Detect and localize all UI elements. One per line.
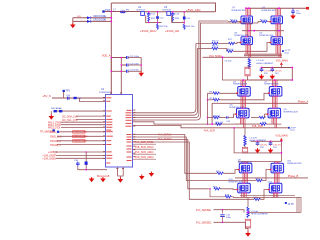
resistor R15 on W1: [216, 122, 224, 125]
ground mcu 2: [100, 177, 106, 182]
bundle Q8 bottom: [272, 118, 277, 128]
resistor R11 gate Q9: [216, 169, 239, 175]
label Q3: [234, 33, 249, 38]
svg-text:R4 2.2: R4 2.2: [212, 46, 219, 48]
label Q9: [238, 159, 253, 163]
ferrite bead FB1: [74, 97, 82, 100]
svg-text:100n: 100n: [296, 13, 302, 15]
wire bus2: [133, 49, 198, 116]
wire source bus c3: [233, 196, 302, 198]
svg-text:NCP163: NCP163: [137, 10, 146, 12]
ground diodes: [70, 18, 76, 28]
resistor R24: [172, 16, 180, 22]
ground mcu 5: [118, 178, 124, 183]
transistor Q5: [237, 86, 250, 97]
label Q11: [287, 160, 302, 165]
transistor Q3: [240, 36, 252, 45]
wire mid2 to cluster2: [133, 125, 289, 127]
capacitor C13: [171, 12, 180, 16]
MCU pin names right: [126, 110, 132, 161]
wire top horizontal: [111, 3, 215, 12]
capacitor C23: [127, 70, 142, 73]
svg-text:PxC_SCR_ADC1: PxC_SCR_ADC1: [135, 151, 154, 154]
resistor R13 gate Q10: [209, 187, 238, 191]
svg-text:25V: 25V: [260, 147, 264, 149]
wire vdd second pin: [79, 98, 105, 102]
svg-text:100n: 100n: [226, 217, 232, 219]
wire stub left 2: [73, 20, 112, 22]
drain stubs Q11: [275, 162, 280, 164]
wire phase A: [211, 103, 308, 125]
wire U2 out: [145, 11, 167, 13]
svg-text:+3V3A_MCU: +3V3A_MCU: [140, 29, 156, 33]
wire +1V8_SNSP: [42, 155, 105, 158]
resistor R8 gate Q6: [208, 116, 227, 119]
wire stub left 1: [73, 17, 112, 19]
MCU pin names left: [106, 97, 113, 163]
resistor R2 gate Q2: [225, 19, 271, 23]
wire rc bottom: [196, 222, 248, 229]
MCU right net labels: [133, 141, 157, 144]
label Q5: [233, 81, 248, 85]
wire bus1: [133, 44, 196, 113]
junction rail corner: [245, 7, 247, 9]
junction dots trunk: [110, 11, 112, 23]
resistor R4 gate Q4: [197, 42, 271, 53]
resistor R14 gate Q12: [253, 189, 269, 201]
wire SWDIO: [50, 131, 106, 134]
wire vss riser c2: [281, 140, 283, 161]
svg-text:R22 10k: R22 10k: [160, 26, 169, 28]
label Q12: [268, 182, 273, 184]
MCU U1: [99, 88, 133, 167]
svg-text:HIGH CURRENT: HIGH CURRENT: [251, 214, 268, 216]
resistor R9 gate Q8: [251, 113, 268, 118]
inductor L3: [247, 198, 269, 218]
ground C9: [255, 148, 261, 153]
drain bundle Q2: [276, 8, 281, 16]
wire TRACE1: [50, 144, 106, 147]
junction dots caps: [111, 57, 143, 72]
testpoint J1: [282, 50, 291, 54]
capacitor C9: [256, 141, 268, 149]
svg-text:Mxxxxxx8: Mxxxxxx8: [97, 174, 110, 178]
wire out node bottom: [247, 79, 293, 81]
svg-text:R3 2.2: R3 2.2: [212, 41, 219, 43]
svg-text:HIGH CURRENT: HIGH CURRENT: [256, 63, 273, 65]
transistor Q7: [269, 86, 282, 97]
capacitor C11: [147, 12, 156, 16]
wire bus3: [133, 21, 229, 118]
wire U2 bottom loop: [146, 12, 162, 23]
drain stubs Q5: [241, 80, 246, 87]
wire return bottom: [248, 211, 301, 213]
svg-text:C23 100n: C23 100n: [130, 70, 140, 72]
sense resistor RS3: [245, 219, 250, 228]
svg-text:+3V3A_GD: +3V3A_GD: [165, 29, 179, 33]
inductor L7: [113, 8, 129, 12]
svg-text:CR2 DIODE: CR2 DIODE: [93, 15, 106, 18]
inductor L2: [244, 128, 267, 146]
ground mcu 1: [89, 177, 95, 182]
net tag VBAT: [306, 7, 309, 10]
capacitor C12: [156, 16, 164, 19]
wire mid1 to cluster2: [133, 122, 261, 125]
wire main vertical left trunk: [110, 3, 112, 95]
source bundle Q1-Q3: [246, 24, 251, 37]
label Q7: [264, 81, 279, 85]
wire +5V_ADJ net: [171, 11, 216, 13]
svg-text:PA15_JTDI: PA15_JTDI: [48, 127, 60, 130]
capacitor C30: [74, 160, 80, 166]
bundle Q7-Q8: [273, 96, 278, 108]
capacitor C6: [225, 61, 233, 63]
resistor R13b: [210, 189, 234, 198]
bundle Q4 bottom: [276, 45, 281, 58]
svg-text:PxD_SCR_ADC2: PxD_SCR_ADC2: [135, 156, 154, 159]
bundle Q12 bottom: [273, 193, 278, 198]
capacitor C15: [220, 210, 231, 223]
ground L3: [245, 228, 251, 237]
capacitor C21: [127, 56, 142, 59]
wire bus5: [133, 135, 218, 174]
capacitor C31: [66, 95, 71, 100]
wire mcu bottom pins: [118, 167, 124, 178]
wire out node c2: [242, 152, 281, 154]
transistor Q4: [270, 36, 282, 45]
label VSS_MAIN 1: [276, 60, 288, 69]
ground mcu 4: [149, 172, 155, 177]
wire phase row1: [242, 30, 284, 32]
svg-text:NVMFS5C628: NVMFS5C628: [284, 111, 299, 113]
svg-text:I2C_SCL_1V8: I2C_SCL_1V8: [62, 119, 78, 122]
wire TRACE0: [50, 140, 106, 143]
inductor L1: [248, 57, 274, 69]
bundle Q3 bottom: [246, 45, 251, 58]
label Q6: [230, 105, 245, 110]
label PxA_SCR2A: [158, 138, 172, 141]
bundle Q6 bottom: [241, 118, 246, 128]
wire GPIO1: [48, 124, 106, 127]
wire source row c2: [234, 123, 260, 125]
transistor Q8: [267, 108, 280, 119]
label Phase_A: [298, 100, 309, 104]
wire left drop: [222, 56, 247, 80]
svg-text:+1V8_SNSN: +1V8_SNSN: [42, 158, 56, 161]
junction dots U3: [172, 11, 185, 23]
svg-text:SWDIO_MCU: SWDIO_MCU: [74, 132, 88, 134]
ground C8: [270, 74, 276, 79]
label Ph_SCR: [252, 125, 263, 128]
wire +1V8_S: [48, 150, 106, 154]
wire SWCLK: [50, 135, 106, 138]
svg-text:25V: 25V: [264, 73, 268, 75]
regulator U3: [163, 6, 172, 15]
ground bead: [49, 111, 55, 120]
transistor Q9: [239, 163, 252, 174]
svg-text:PxA_SCR_DAC1: PxA_SCR_DAC1: [135, 141, 154, 144]
wire vss node: [261, 67, 294, 69]
bundle Q5-Q6: [241, 96, 246, 108]
diode D2: [87, 19, 106, 23]
label Q8: [284, 109, 299, 113]
transistor Q12: [269, 183, 282, 194]
wire +5V_S row: [52, 97, 106, 99]
ferrite bead FB2: [85, 162, 88, 165]
svg-text:NVMFS5C628: NVMFS5C628: [262, 10, 277, 12]
wire bus6: [133, 137, 257, 181]
svg-text:+5V0_ADJ: +5V0_ADJ: [186, 8, 201, 12]
resistor R23: [183, 24, 195, 29]
wire input left: [103, 11, 141, 13]
source bus cluster1: [203, 54, 283, 57]
junction dots U2: [148, 11, 158, 23]
transistor Q1: [240, 15, 252, 24]
wire cluster2 gate riser: [207, 93, 209, 124]
wire left drop c2: [233, 127, 242, 153]
label Q4: [259, 33, 274, 38]
testpoint J3: [288, 127, 297, 132]
svg-text:R23 10k: R23 10k: [186, 26, 195, 28]
svg-text:PxC_SENSE2: PxC_SENSE2: [196, 222, 212, 225]
wire U3 bottom loop: [172, 12, 185, 25]
label +3V3_MCU: [140, 29, 156, 33]
resistor R7 gate Q7: [208, 93, 270, 102]
capacitor C10: [269, 141, 282, 149]
junction drain c2: [242, 79, 275, 81]
svg-text:VSS_MAIN: VSS_MAIN: [276, 135, 288, 138]
svg-text:TR4: TR4: [105, 8, 110, 12]
wire right risers c3: [297, 198, 301, 213]
svg-text:C22 100n: C22 100n: [130, 63, 140, 65]
wire GPIO0: [48, 121, 106, 124]
wire vss node c2: [251, 140, 282, 142]
transistor Q6: [236, 108, 249, 119]
testpoint TP1: [63, 90, 71, 98]
svg-text:J4 TP: J4 TP: [288, 203, 295, 206]
label Phase_B: [288, 174, 299, 178]
wire mcu bottom left: [78, 152, 107, 171]
label Q10: [229, 179, 244, 184]
label +5V_S: [42, 94, 51, 98]
capacitor C14: [183, 17, 191, 20]
resistor R22: [157, 22, 169, 29]
ground C5: [290, 14, 296, 19]
svg-text:+5V_S: +5V_S: [42, 94, 51, 98]
svg-text:CR3 DIODE: CR3 DIODE: [93, 19, 106, 22]
diode D1: [77, 15, 106, 19]
wire bus7: [133, 140, 209, 189]
ground C10: [268, 148, 274, 153]
wire top rail: [246, 7, 307, 9]
drain stubs Q7: [273, 80, 278, 87]
svg-text:PxA_SCR: PxA_SCR: [204, 129, 215, 132]
drain stubs Q9: [243, 162, 248, 164]
wire bus8: [133, 142, 255, 199]
junction rail dot: [248, 7, 280, 9]
wire GPIO2: [48, 127, 106, 130]
svg-text:Phase_B: Phase_B: [288, 174, 299, 178]
svg-text:C6 10n: C6 10n: [225, 61, 233, 63]
svg-text:C21 100n: C21 100n: [130, 56, 140, 58]
transistor Q2: [270, 15, 282, 24]
label Q2: [262, 7, 277, 12]
svg-text:VDD_A: VDD_A: [102, 54, 111, 58]
bundle Q10 bottom: [242, 193, 247, 198]
wire bus4: [133, 23, 225, 120]
label mounting: [97, 174, 110, 178]
svg-text:TRACE_MCU: TRACE_MCU: [74, 140, 88, 143]
resistor R10: [260, 122, 281, 125]
source bundle Q2-Q4: [276, 24, 281, 37]
wire vdd rows: [111, 58, 126, 95]
wire +1V8_SNSN: [42, 158, 105, 161]
resistor R21: [148, 16, 156, 22]
transistor Q10: [237, 183, 250, 194]
capacitor C5 rail: [291, 8, 301, 15]
resistor R3b gate Q3: [228, 39, 241, 45]
MCU pin numbers outside: [103, 93, 135, 169]
label PH_SCR1: [204, 129, 215, 132]
sense resistor RS1: [245, 67, 250, 81]
label +5V_ADJ: [186, 8, 201, 12]
label PxA_SCR1A: [158, 133, 172, 136]
wire vss riser: [291, 68, 293, 81]
resistor R12 gate Q11: [255, 169, 271, 182]
svg-text:NCP163: NCP163: [163, 10, 172, 12]
label VDDA: [102, 54, 111, 58]
wire I2C SDA: [62, 115, 106, 118]
resistor R6 gate Q5: [208, 91, 238, 94]
ground caps: [138, 71, 144, 76]
testpoint TP_SWCLK: [40, 129, 55, 133]
bundle Q9-Q10: [243, 173, 248, 183]
svg-text:25V: 25V: [273, 147, 277, 149]
label +3V3_GD: [165, 29, 179, 33]
resistor R1 gate Q1: [228, 19, 241, 23]
ferrite bead FB3: [51, 107, 105, 112]
wire caps common: [140, 58, 142, 72]
label Q1: [232, 7, 247, 12]
svg-text:TP1: TP1: [65, 90, 70, 93]
wire rc top: [196, 209, 244, 213]
capacitor C8: [271, 68, 283, 76]
transistor Q11: [270, 163, 283, 174]
regulator U2: [137, 6, 146, 15]
svg-text:VSS_MAIN: VSS_MAIN: [276, 60, 288, 63]
svg-text:NVMFS5C628: NVMFS5C628: [233, 84, 248, 86]
svg-text:PxB_SCR: PxB_SCR: [252, 125, 263, 128]
capacitor C7: [260, 68, 272, 76]
svg-text:PxC_SENSE1: PxC_SENSE1: [196, 209, 212, 212]
bundle Q11-Q12: [275, 173, 280, 183]
svg-text:NVMFS5C628: NVMFS5C628: [232, 10, 247, 12]
wire I2C SCL: [62, 119, 106, 122]
svg-text:25V: 25V: [275, 73, 279, 75]
svg-text:SWCLK_MCU: SWCLK_MCU: [74, 136, 88, 138]
capacitor C16 gate Q6: [226, 113, 237, 123]
resistor R3 gate Q3: [196, 41, 229, 45]
wire drain feed c3: [238, 161, 281, 163]
svg-text:NVMFS5C628: NVMFS5C628: [264, 84, 279, 86]
svg-text:PxB_SCR_DAC2: PxB_SCR_DAC2: [135, 146, 154, 149]
ground mcu 3: [139, 175, 145, 180]
drain bundle Q1: [246, 8, 251, 16]
testpoint J4: [285, 202, 294, 206]
svg-text:NVMFS5C628: NVMFS5C628: [287, 163, 302, 165]
node flag TR4: [102, 8, 110, 13]
wire phase B: [235, 177, 308, 179]
svg-text:Phase_A: Phase_A: [298, 100, 309, 104]
label P1A_SCR: [209, 55, 222, 58]
label VSS_MAIN 2: [276, 135, 288, 141]
ground C7: [259, 74, 265, 79]
sense resistor RS2: [242, 146, 247, 153]
svg-text:FB3 BEAD: FB3 BEAD: [51, 107, 62, 110]
capacitor C22: [127, 63, 142, 66]
